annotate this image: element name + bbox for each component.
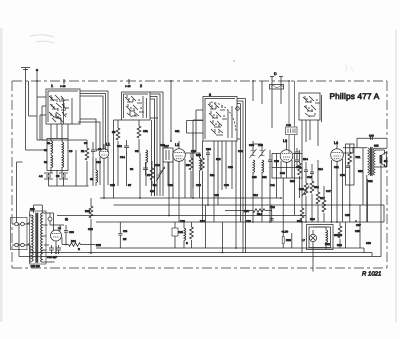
- scan smudge top left: [30, 35, 54, 43]
- svg-text:R10: R10: [196, 154, 201, 157]
- svg-text:C42: C42: [270, 206, 275, 209]
- coil S15: [253, 160, 255, 173]
- switch 3 inner wires: [228, 106, 232, 138]
- switch 1 wrap lines: [78, 91, 108, 152]
- svg-text:R16: R16: [314, 186, 319, 189]
- switch 1 inner wires: [56, 98, 72, 124]
- svg-text:S22: S22: [368, 180, 373, 183]
- switch 3 dots: [212, 106, 224, 132]
- svg-text:Philips 477 A: Philips 477 A: [330, 92, 380, 101]
- wire transformer top leads: [34, 205, 43, 213]
- junction node 171,81: [170, 80, 172, 82]
- svg-text:C13: C13: [96, 161, 101, 164]
- transformer core: [36, 213, 38, 264]
- electrolytic C63: [56, 245, 61, 254]
- wire v360: [359, 205, 361, 248]
- capacitor C60: [64, 225, 68, 238]
- switch 2 contacts: [125, 96, 139, 117]
- scan pencil mark: [345, 64, 353, 72]
- svg-text:C53: C53: [345, 214, 350, 217]
- svg-text:R12: R12: [253, 194, 258, 197]
- mains terminal top: [15, 222, 19, 226]
- svg-text:125 220: 125 220: [31, 265, 41, 268]
- wire mains: [12, 222, 30, 245]
- HT bus y252: [30, 252, 372, 254]
- svg-text:R: R: [78, 248, 80, 251]
- svg-text:R12: R12: [200, 220, 205, 223]
- svg-text:C40: C40: [280, 172, 285, 175]
- wire v345: [345, 222, 347, 248]
- svg-text:S16: S16: [262, 176, 267, 179]
- svg-text:S15: S15: [252, 176, 257, 179]
- svg-text:R19: R19: [310, 218, 315, 221]
- junction node 236,248: [235, 247, 237, 249]
- svg-text:S: S: [186, 242, 188, 245]
- svg-text:S7: S7: [128, 184, 132, 187]
- wire det joins: [306, 160, 318, 222]
- coil S24: [326, 230, 328, 243]
- junction node 56,253: [55, 252, 57, 254]
- wire plate lead: [186, 152, 201, 154]
- svg-text:C60: C60: [69, 231, 74, 234]
- svg-text:C45: C45: [296, 166, 301, 169]
- svg-text:C20: C20: [168, 184, 173, 187]
- wire v258 top: [253, 81, 262, 104]
- resistor R17: [316, 192, 320, 204]
- junction node 270,222: [269, 221, 271, 223]
- capacitor C52: [346, 162, 350, 168]
- screen box R21: [346, 144, 355, 185]
- wire bank3 left leads: [193, 110, 203, 188]
- wire sec to speaker: [368, 148, 388, 222]
- svg-text:S9: S9: [130, 168, 134, 171]
- wire v236: [235, 222, 237, 248]
- resistor R7: [150, 168, 154, 180]
- svg-text:4.2: 4.2: [39, 175, 43, 178]
- wire v296 lower: [294, 155, 296, 215]
- wire HT top: [343, 147, 368, 149]
- switch 4 contacts: [303, 96, 316, 117]
- switch 3 wrap lines: [237, 99, 246, 254]
- resistor R9: [189, 158, 193, 170]
- junction node 208,205: [207, 204, 209, 206]
- wire filter bottom: [49, 170, 89, 186]
- resistor R13: [298, 163, 302, 175]
- junction node 169,215.5: [168, 215, 170, 217]
- scan edge right: [396, 30, 397, 322]
- svg-text:C32: C32: [238, 150, 243, 153]
- wire drops bank2: [152, 120, 155, 196]
- svg-text:C49: C49: [369, 135, 374, 138]
- wire bank1 left leads: [37, 97, 46, 140]
- svg-text:R23: R23: [85, 210, 90, 213]
- svg-text:R21: R21: [356, 156, 361, 159]
- junction node 66,244.5: [65, 244, 67, 246]
- capacitor C22: [206, 148, 210, 160]
- svg-text:2: 2: [140, 84, 142, 88]
- wire c37: [269, 150, 271, 222]
- svg-text:C12: C12: [117, 145, 122, 148]
- svg-text:C30: C30: [224, 184, 229, 187]
- svg-text:R11: R11: [210, 174, 215, 177]
- capacitor C16: [143, 162, 148, 176]
- capacitor C46: [304, 166, 308, 176]
- resistor R11: [201, 158, 205, 170]
- junction node 222.5,252.5: [222, 252, 224, 254]
- svg-text:R20: R20: [337, 244, 342, 247]
- svg-text:C50: C50: [340, 174, 345, 177]
- svg-text:S13: S13: [216, 158, 221, 161]
- svg-text:S23: S23: [374, 145, 379, 148]
- svg-text:C51: C51: [334, 166, 339, 169]
- capacitor C44: [295, 148, 299, 158]
- resistor R21: [348, 152, 352, 164]
- svg-text:C38: C38: [274, 160, 279, 163]
- agc bus y215: [57, 215, 306, 217]
- scan edge left: [0, 28, 3, 322]
- switch 1 contacts: [49, 95, 66, 122]
- svg-text:C8: C8: [84, 142, 88, 145]
- switch 2 wiper ticks: [127, 95, 134, 115]
- svg-text:C57: C57: [356, 224, 361, 227]
- switch 1 dots: [52, 98, 66, 115]
- wire bus corners: [19, 165, 384, 257]
- junction node 91,253: [90, 252, 92, 254]
- svg-text:C51: C51: [143, 130, 148, 133]
- scan speck: [233, 60, 234, 61]
- svg-text:R1: R1: [81, 150, 85, 153]
- svg-text:D: D: [274, 72, 277, 76]
- svg-text:R 1021: R 1021: [362, 271, 381, 278]
- wire h120 bank1: [40, 139, 87, 141]
- resistor R24: [69, 243, 81, 247]
- svg-text:C43: C43: [307, 176, 312, 179]
- junction node 253,81: [252, 80, 254, 82]
- capacitor C37: [268, 155, 272, 168]
- wire primary leads: [30, 214, 32, 262]
- svg-text:C29: C29: [178, 231, 183, 234]
- resistor R6: [137, 126, 141, 138]
- wire filter joins: [51, 124, 68, 173]
- earth bus y256: [19, 256, 381, 258]
- svg-text:R5: R5: [112, 131, 116, 134]
- svg-text:R17: R17: [320, 197, 325, 200]
- svg-text:C48: C48: [286, 124, 291, 127]
- junction node 350,205: [349, 204, 351, 206]
- transformer primary winding: [32, 215, 34, 261]
- svg-text:C28: C28: [228, 166, 233, 169]
- svg-text:R13: R13: [290, 180, 295, 183]
- capacitor C48 block: [286, 127, 298, 135]
- svg-text:C15: C15: [110, 184, 115, 187]
- transformer enclosure: [30, 211, 47, 264]
- wire v28: [29, 81, 37, 116]
- output transformer S25 primary: [368, 148, 370, 175]
- resistor R14b horizontal: [225, 210, 253, 212]
- transformer secondary winding: [41, 213, 43, 262]
- junction node 281,198: [280, 197, 282, 199]
- svg-text:R8: R8: [186, 164, 190, 167]
- gram jack outline: [307, 225, 334, 250]
- switch 2 inner wires: [143, 96, 147, 118]
- svg-text:R14: R14: [318, 168, 323, 171]
- wire v186: [186, 121, 188, 134]
- wire gram joins: [313, 227, 326, 272]
- antenna A: [21, 68, 30, 88]
- svg-text:S28: S28: [30, 208, 35, 211]
- capacitor C45: [295, 156, 299, 166]
- wire if2 joins: [253, 141, 262, 222]
- wave switch unit 1 outline: [46, 89, 80, 124]
- capacitor C14: [124, 140, 129, 154]
- svg-text:5Ω: 5Ω: [384, 160, 387, 163]
- wire v366: [366, 175, 368, 222]
- filter box: [47, 139, 68, 171]
- grid cap lead: [96, 148, 99, 152]
- wire psu joins: [44, 238, 66, 255]
- rf gain control R4: [157, 167, 165, 181]
- chassis dashed border right: [386, 81, 388, 268]
- wire v302: [301, 140, 303, 208]
- svg-text:C%: C%: [123, 230, 128, 233]
- wire earth drop: [36, 70, 38, 140]
- wire v140: [139, 153, 141, 198]
- svg-text:L4: L4: [334, 141, 338, 145]
- trimmer circle: [236, 107, 240, 111]
- svg-text:►10: ►10: [60, 85, 66, 88]
- wire mains feed left: [17, 162, 23, 223]
- wire v114: [113, 150, 115, 198]
- wire drops bank3: [214, 141, 236, 222]
- junction node 331.5,222: [331, 221, 333, 223]
- junction node 37,81: [36, 80, 38, 82]
- resistor R18: [322, 200, 326, 212]
- resistor R1: [85, 148, 89, 160]
- output transformer secondary: [373, 148, 375, 175]
- switch 2 dots: [129, 99, 141, 115]
- loudspeaker: [380, 155, 382, 164]
- electrolytic C62: [49, 245, 54, 254]
- svg-text:R5: R5: [123, 238, 127, 241]
- svg-text:R24: R24: [71, 240, 76, 243]
- wire bank2 bottom bus: [114, 120, 122, 150]
- wire det horiz: [272, 154, 302, 168]
- coil S5: [96, 170, 98, 183]
- wire B+ feed y138: [357, 138, 387, 148]
- transformer core: [370, 147, 372, 176]
- svg-text:S1: S1: [47, 142, 51, 145]
- svg-text:C34: C34: [249, 144, 254, 147]
- svg-text:(x): (x): [65, 218, 68, 221]
- switch 4 dots: [307, 99, 317, 114]
- svg-text:L2: L2: [175, 143, 179, 147]
- resistor R15 volume: [304, 183, 308, 195]
- chassis dashed border top: [12, 80, 387, 82]
- svg-text:C29: C29: [180, 220, 185, 223]
- svg-text:C5: C5: [56, 175, 60, 178]
- svg-text:S11: S11: [175, 130, 180, 133]
- mains terminal bottom: [15, 243, 19, 247]
- bus y198: [100, 197, 281, 199]
- svg-text:C6: C6: [69, 150, 73, 153]
- resistor R16: [310, 181, 314, 193]
- svg-text:R14: R14: [257, 213, 262, 216]
- L2 cathode network: [172, 228, 178, 236]
- coil S10: [146, 150, 148, 163]
- svg-text:R4: R4: [153, 184, 157, 187]
- resistor R26: [282, 237, 284, 244]
- svg-text:S26: S26: [358, 170, 363, 173]
- switch 3 contacts: [208, 103, 223, 134]
- wave switch unit 4 outline: [299, 93, 322, 122]
- capacitor C47: [310, 168, 314, 178]
- resistor R20: [338, 226, 342, 238]
- svg-text:S8: S8: [135, 150, 139, 153]
- wire box l2: [187, 121, 204, 199]
- junction node 356,221: [355, 220, 357, 222]
- svg-text:C56: C56: [355, 230, 360, 233]
- svg-text:R26: R26: [286, 239, 291, 242]
- svg-text:+1.50: +1.50: [282, 231, 289, 234]
- wire L4 plate: [343, 147, 353, 153]
- resistor R5: [116, 128, 120, 140]
- svg-text:C58: C58: [366, 242, 371, 245]
- capacitor C54: [118, 222, 122, 248]
- svg-text:C9: C9: [98, 148, 102, 151]
- junction node 193,198: [192, 197, 194, 199]
- coil S3: [62, 142, 64, 155]
- junction node 289,81: [288, 80, 290, 82]
- junction node 337,222: [336, 221, 338, 223]
- wire r9-11: [191, 141, 203, 222]
- wire rf joins: [76, 140, 96, 186]
- node dot L2: [170, 140, 172, 142]
- junction node 104,198: [103, 197, 105, 199]
- svg-text:C23: C23: [191, 150, 196, 153]
- svg-text:C19: C19: [150, 190, 155, 193]
- svg-text:C59: C59: [88, 228, 93, 231]
- svg-text:R7: R7: [147, 174, 151, 177]
- svg-text:L1: L1: [106, 143, 110, 147]
- svg-text:C26: C26: [214, 194, 219, 197]
- svg-text:C25: C25: [196, 184, 201, 187]
- wire antenna to filter: [26, 140, 48, 150]
- svg-text:C16: C16: [155, 164, 160, 167]
- resistor R19 vertical: [300, 208, 304, 220]
- coil S12: [200, 158, 202, 171]
- svg-text:C24: C24: [206, 148, 211, 151]
- svg-text:C18: C18: [160, 144, 165, 147]
- oscillator switch unit outline: [203, 97, 237, 142]
- switch 1 wiper arrows: [51, 95, 64, 119]
- wire v276: [276, 162, 278, 198]
- tuning gang dashed arc: [211, 102, 236, 132]
- wire v222: [222, 222, 224, 253]
- mains selector plate: [11, 218, 28, 250]
- coil S16: [262, 160, 264, 173]
- earth bus y222: [96, 221, 384, 223]
- wire v169: [168, 162, 170, 216]
- chassis dashed border left: [11, 81, 13, 268]
- svg-text:C47: C47: [326, 190, 331, 193]
- chassis dashed border bottom: [12, 267, 387, 269]
- wire secondary taps: [43, 213, 55, 262]
- svg-text:R14: R14: [303, 158, 308, 161]
- svg-text:C14: C14: [120, 156, 125, 159]
- svg-text:C41: C41: [270, 184, 275, 187]
- HT bus y248: [96, 247, 364, 249]
- capacitor C17 box: [163, 148, 173, 162]
- wire drops bank4: [302, 120, 318, 146]
- switch 4 wiper ticks: [305, 96, 312, 112]
- wave switch unit 2 outline: [122, 92, 151, 120]
- svg-text:C17: C17: [164, 145, 169, 148]
- screen bus y205: [114, 204, 385, 206]
- wire antenna drop: [25, 87, 27, 150]
- svg-text:1: 1: [51, 84, 53, 88]
- junction node 302,222: [301, 221, 303, 223]
- wire bank2 to L2 grid: [170, 81, 172, 141]
- switch 2 wrap lines: [150, 92, 163, 196]
- resistor R23: [89, 206, 93, 218]
- junction node 140,198: [139, 197, 141, 199]
- svg-text:C39: C39: [246, 220, 251, 223]
- svg-text:C35: C35: [258, 144, 263, 147]
- capacitor C40b: [270, 219, 274, 221]
- capacitor C7: [91, 146, 95, 156]
- fuse lamp: [48, 217, 52, 221]
- box L3 bottom: [272, 168, 302, 179]
- wire bias vertical: [206, 205, 292, 248]
- svg-text:R25: R25: [96, 244, 101, 247]
- svg-text:►10: ►10: [125, 85, 131, 88]
- wire if1 joins: [118, 120, 168, 186]
- wire v202: [207, 159, 209, 205]
- wire c48 feeds: [289, 81, 295, 155]
- switch 3 wiper ticks: [210, 102, 219, 132]
- earth dot: [36, 69, 39, 72]
- junction node 253,222: [252, 221, 254, 223]
- wire v363: [362, 148, 364, 205]
- junction node 306,222: [305, 221, 307, 223]
